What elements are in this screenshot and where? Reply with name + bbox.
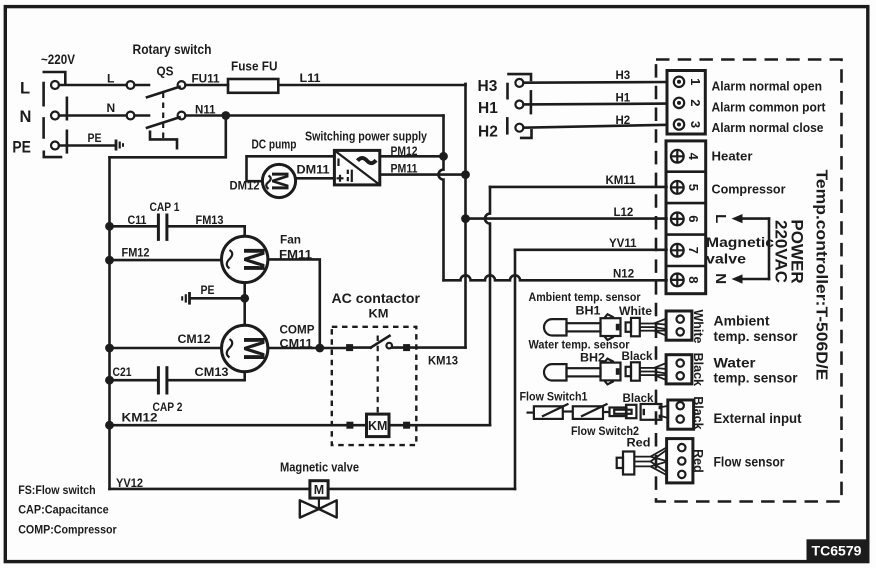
svg-text:M: M <box>237 336 270 361</box>
terminal N <box>51 112 59 120</box>
contactor link dashed <box>377 336 379 415</box>
wire KM13 to L bus <box>392 346 465 349</box>
svg-text:CAP:Capacitance: CAP:Capacitance <box>18 503 109 517</box>
temp controller dashed box <box>656 60 842 502</box>
svg-text:H1: H1 <box>478 100 498 117</box>
wire L to switch <box>59 84 127 87</box>
terminal 6 screw <box>671 213 684 226</box>
terminal 8 screw <box>671 274 684 287</box>
motor DC pump DM11 <box>262 164 295 197</box>
svg-text:Compressor: Compressor <box>712 182 786 196</box>
svg-text:Water temp. sensor: Water temp. sensor <box>529 337 630 351</box>
svg-text:Switching power supply: Switching power supply <box>305 130 427 144</box>
terminal 2 symbol <box>674 98 684 108</box>
svg-text:Alarm normal open: Alarm normal open <box>712 79 823 93</box>
svg-text:PE: PE <box>88 131 102 145</box>
svg-text:DM12: DM12 <box>230 179 260 193</box>
terminal block divider <box>666 265 706 268</box>
svg-text:Black: Black <box>622 349 653 363</box>
terminal block divider <box>666 202 706 205</box>
svg-text:CAP 1: CAP 1 <box>150 200 180 214</box>
connector flow sensor plug <box>617 452 635 475</box>
junction CM11/FM11 <box>315 344 324 353</box>
connector flow plug <box>610 405 637 418</box>
terminal PE <box>51 142 59 150</box>
svg-text:Red: Red <box>691 449 705 473</box>
svg-text:Magnetic valve: Magnetic valve <box>280 461 359 475</box>
junction N11 <box>221 111 230 120</box>
wire N11 from switch to N bus corner <box>185 114 443 117</box>
terminal block external input <box>668 400 694 429</box>
terminal 3 symbol <box>674 119 684 129</box>
svg-text:Flow sensor: Flow sensor <box>714 455 786 470</box>
terminal block black water <box>666 355 692 384</box>
wire fan to PE junction down to comp <box>243 283 246 326</box>
capacitor C21 CAP 2 <box>158 366 167 394</box>
terminal H3 <box>515 79 523 87</box>
terminal 4 screw <box>671 150 684 163</box>
svg-text:H2: H2 <box>478 124 498 141</box>
svg-text:Black: Black <box>691 396 705 429</box>
junction C21/left bus <box>105 376 114 385</box>
connector BH1 mate <box>626 318 640 336</box>
svg-text:Flow Switch1: Flow Switch1 <box>520 390 588 404</box>
wire FM12 to fan <box>110 259 222 262</box>
svg-text:Black: Black <box>691 353 705 386</box>
pins to external input block <box>659 405 662 409</box>
svg-text:COMP: COMP <box>280 323 315 337</box>
svg-text:PM11: PM11 <box>391 161 418 175</box>
wire YV11 bus B4 vertical <box>514 250 517 489</box>
wire C21 <box>110 379 159 382</box>
wire N11 junction down and left to left bus <box>110 116 226 158</box>
contact KM13 pad left <box>346 344 353 351</box>
wire DC pump loop top <box>247 156 335 181</box>
svg-text:External input: External input <box>714 411 802 426</box>
svg-text:KM12: KM12 <box>122 411 158 425</box>
svg-text:Temp.controller:T-506D/E: Temp.controller:T-506D/E <box>813 170 830 381</box>
svg-text:220VAC: 220VAC <box>772 220 791 283</box>
wire N12 from N bus to terminal 8 with hops <box>444 275 667 280</box>
wire L12 to terminal 6 <box>466 217 667 220</box>
terminal block 4-8 <box>666 141 706 294</box>
svg-text:N: N <box>712 273 729 284</box>
svg-text:H3: H3 <box>478 78 498 95</box>
svg-text:YV12: YV12 <box>116 476 143 490</box>
wires BH2 to block <box>640 363 667 380</box>
svg-text:White: White <box>619 304 652 318</box>
svg-text:CM13: CM13 <box>195 365 229 379</box>
svg-text:QS: QS <box>157 64 174 79</box>
svg-text:7: 7 <box>686 247 701 254</box>
terminal L <box>51 81 59 89</box>
terminal 1 symbol <box>674 77 684 87</box>
coil KM box <box>367 414 390 437</box>
svg-text:Water: Water <box>714 355 757 370</box>
motor fan FM11 <box>222 236 271 282</box>
sensor BH2 stem <box>567 368 601 376</box>
connector H dashed enclosure <box>507 74 531 138</box>
svg-text:Rotary switch: Rotary switch <box>133 42 212 57</box>
svg-text:C21: C21 <box>113 365 132 379</box>
svg-text:H1: H1 <box>616 93 631 105</box>
svg-text:L: L <box>107 72 114 86</box>
connector flow receptacle <box>641 404 662 420</box>
flow switch FS2 <box>563 404 610 419</box>
svg-text:KM: KM <box>369 307 389 321</box>
svg-text:KM13: KM13 <box>428 354 458 368</box>
svg-text:L: L <box>20 80 30 98</box>
wire KM11 bus B3 vertical with hop over L12 <box>485 187 490 425</box>
svg-text:5: 5 <box>686 184 701 191</box>
svg-text:N: N <box>107 101 116 115</box>
svg-text:3: 3 <box>688 121 703 128</box>
power supply box U1 <box>334 150 379 185</box>
svg-text:L12: L12 <box>614 207 634 219</box>
junction PE/motor wire <box>240 294 249 303</box>
ground PE symbol <box>116 140 123 151</box>
connector BH2 mate <box>626 362 640 380</box>
wires BH1 to block <box>640 319 667 336</box>
svg-text:1: 1 <box>688 78 703 85</box>
svg-text:N12: N12 <box>613 268 634 280</box>
svg-text:DC pump: DC pump <box>252 138 297 152</box>
connector BH1 pin <box>616 324 620 331</box>
terminal block 220V dashed enclosure <box>44 72 67 157</box>
power bracket wire <box>768 219 771 279</box>
svg-text:Heater: Heater <box>712 150 753 164</box>
fuse FU <box>228 79 278 93</box>
svg-text:M: M <box>314 483 324 497</box>
terminal H1 <box>515 101 523 109</box>
flow switch FS1 <box>527 404 569 419</box>
wires flow sensor <box>634 448 666 476</box>
valve body bowtie <box>300 500 337 517</box>
svg-text:4: 4 <box>686 153 701 161</box>
svg-text:COMP:Compressor: COMP:Compressor <box>18 523 117 537</box>
wire CM13 to compressor bottom <box>167 372 245 381</box>
contact KM13 pad right <box>403 344 410 351</box>
svg-text:PE: PE <box>201 283 215 297</box>
junction PM11/L bus <box>461 170 470 179</box>
junction CM12/left bus <box>105 344 114 353</box>
terminal block divider <box>666 170 706 173</box>
junction PM12/N bus <box>439 152 448 161</box>
valve M box <box>310 481 328 498</box>
svg-text:FU11: FU11 <box>192 72 220 86</box>
svg-text:FM13: FM13 <box>196 213 224 227</box>
svg-text:8: 8 <box>686 276 701 283</box>
contact KM point circle <box>386 343 392 349</box>
terminal H2 <box>515 124 523 132</box>
connector BH2 housing <box>601 359 621 385</box>
wire KM12 to coil <box>110 424 367 427</box>
motor compressor CM11 <box>222 325 271 371</box>
wire C11 <box>110 225 159 228</box>
svg-text:FS:Flow switch: FS:Flow switch <box>18 483 96 497</box>
svg-text:Alarm normal close: Alarm normal close <box>712 121 824 135</box>
wire H3 to terminal 1 <box>524 81 667 84</box>
svg-text:valve: valve <box>706 251 747 266</box>
svg-text:FM12: FM12 <box>122 246 150 260</box>
wire KM11 to terminal 5 <box>490 186 667 189</box>
junction C11/left bus <box>105 222 114 231</box>
svg-text:YV11: YV11 <box>609 238 637 250</box>
wire YV12 valve row <box>110 488 516 491</box>
junction L12/L bus <box>461 214 470 223</box>
wire L11 to L bus <box>278 84 465 85</box>
switch QS pole L: contact circles and blade <box>127 81 186 97</box>
junction KM12/left bus <box>105 421 114 430</box>
wire coil to KM11 bus <box>389 424 490 427</box>
wire PE to ground <box>59 144 116 147</box>
wire CM11 to contact <box>268 346 371 349</box>
svg-text:Fan: Fan <box>280 233 301 247</box>
wire switch to fuse <box>185 84 228 87</box>
ground PE at fan <box>182 292 189 305</box>
svg-text:temp. sensor: temp. sensor <box>714 371 799 386</box>
wire PM11 to L bus <box>380 173 466 176</box>
switch QS pole N: contact circles and blade <box>127 112 186 128</box>
contactor KM dashed box <box>332 327 417 445</box>
wire PE stub <box>191 297 245 300</box>
svg-text:TC6579: TC6579 <box>812 543 862 559</box>
svg-text:~220V: ~220V <box>41 52 75 67</box>
connector BH1 housing <box>601 314 621 340</box>
svg-text:L11: L11 <box>300 71 321 85</box>
svg-text:H2: H2 <box>616 115 631 127</box>
terminal 5 screw <box>671 181 684 194</box>
capacitor C11 CAP 1 <box>158 214 167 241</box>
arrow to N <box>732 274 770 283</box>
svg-text:M: M <box>237 247 270 272</box>
svg-text:KM11: KM11 <box>606 175 637 187</box>
switch QS mechanical dashed link <box>162 93 164 139</box>
wire left N bus vertical <box>108 157 111 489</box>
terminal block flow sensor <box>667 439 693 483</box>
svg-text:6: 6 <box>686 215 701 222</box>
sensor BH2 bulb <box>544 364 567 380</box>
terminal block alarm 1-3 <box>667 71 705 135</box>
svg-text:BH1: BH1 <box>576 304 601 318</box>
svg-text:DM11: DM11 <box>297 163 330 177</box>
svg-text:N: N <box>20 108 32 126</box>
svg-text:Ambient: Ambient <box>714 314 771 329</box>
wire FM13 to fan <box>167 226 245 236</box>
wire FM11 from fan down to compressor node <box>268 259 320 347</box>
terminal 7 screw <box>671 244 684 257</box>
svg-text:White: White <box>691 309 705 343</box>
svg-text:temp. sensor: temp. sensor <box>714 329 799 344</box>
svg-text:AC contactor: AC contactor <box>332 291 421 306</box>
wire N to switch <box>59 114 127 117</box>
coil pad right <box>403 422 410 429</box>
wire H2 to terminal 3 <box>524 125 667 128</box>
wire YV11 to terminal 7 <box>515 249 667 252</box>
svg-text:2: 2 <box>688 99 703 106</box>
svg-text:Ambient temp. sensor: Ambient temp. sensor <box>529 290 641 304</box>
part number box TC6579 <box>807 539 867 561</box>
wire CM12 to compressor <box>110 347 222 350</box>
arrow to L <box>732 214 770 223</box>
wire L bus B2 vertical <box>464 84 467 348</box>
sensor BH1 stem <box>567 323 601 331</box>
svg-text:CM12: CM12 <box>178 332 211 346</box>
terminal block divider <box>666 233 706 236</box>
wire N bus B1 vertical with hop over PM11 <box>439 116 444 281</box>
sensor BH1 bulb <box>544 319 567 335</box>
wire DM11 motor to PSU <box>296 177 335 180</box>
svg-text:C11: C11 <box>128 213 147 227</box>
svg-text:PE: PE <box>12 138 31 156</box>
wire PM12 to N bus <box>380 155 444 158</box>
contact KM blade <box>371 336 390 348</box>
svg-text:Fuse FU: Fuse FU <box>231 59 278 74</box>
switch QS actuator bracket <box>150 132 177 148</box>
wire H1 to terminal 2 <box>524 102 667 105</box>
coil pad left <box>346 422 353 429</box>
svg-text:H3: H3 <box>616 70 631 82</box>
svg-text:KM: KM <box>368 419 387 433</box>
svg-text:Magnetic: Magnetic <box>706 235 775 250</box>
junction FM12/left bus <box>105 256 114 265</box>
svg-text:Red: Red <box>627 436 651 450</box>
terminal block white <box>666 311 692 340</box>
connector BH2 pin <box>616 368 620 375</box>
svg-text:L: L <box>712 214 729 223</box>
svg-text:Alarm common port: Alarm common port <box>712 101 827 115</box>
